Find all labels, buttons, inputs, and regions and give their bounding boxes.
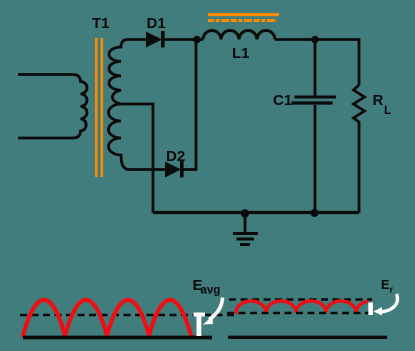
transformer core line left — [95, 38, 98, 177]
left waveform red humps — [23, 300, 191, 336]
ground stem — [244, 213, 247, 233]
svg-text:T1: T1 — [92, 15, 110, 32]
ground junction dot — [241, 209, 249, 217]
transformer T1 primary winding — [18, 75, 87, 139]
svg-text:avg: avg — [201, 285, 221, 297]
node junction dot C1 bottom — [311, 209, 319, 217]
node junction dot C1 top — [311, 36, 319, 44]
inductor L1 — [203, 31, 275, 40]
resistor RL zigzag — [354, 85, 365, 213]
right waveform baseline — [228, 336, 387, 339]
wire L1 to right corner — [275, 40, 359, 86]
right waveform red ripple — [236, 301, 367, 313]
wire center tap — [121, 104, 153, 213]
wire D2 to node riser — [183, 40, 196, 170]
svg-text:r: r — [390, 285, 394, 296]
Eavg white level tick — [194, 313, 206, 317]
Eavg white arrow — [209, 298, 223, 320]
bottom rail wire — [153, 211, 359, 214]
svg-text:C1: C1 — [273, 92, 292, 109]
transformer T1 secondary winding lower half — [108, 104, 129, 170]
capacitor C1 plates — [295, 96, 337, 99]
L1 core line top — [208, 13, 279, 16]
svg-text:L: L — [384, 103, 391, 117]
wire secondary bottom to D2 — [129, 168, 166, 171]
svg-text:D2: D2 — [166, 148, 185, 165]
Er white measure bar — [368, 303, 373, 316]
left waveform dashed average line — [20, 314, 235, 317]
diode D1 — [146, 32, 162, 48]
ground bars — [233, 232, 258, 235]
left waveform baseline — [23, 336, 212, 340]
transformer T1 secondary winding upper half — [109, 40, 128, 105]
svg-text:E: E — [381, 278, 389, 292]
L1 core line bottom — [208, 19, 277, 22]
svg-text:R: R — [373, 92, 384, 109]
node junction dot D1/D2 — [193, 36, 201, 44]
Er white arrow — [378, 294, 398, 312]
wire secondary top to D1 — [128, 38, 147, 41]
Eavg white measure bar — [197, 315, 202, 337]
svg-text:D1: D1 — [147, 15, 166, 32]
transformer core line right — [101, 38, 104, 177]
capacitor C1 lead bottom — [314, 105, 317, 213]
diode D2 — [165, 162, 181, 178]
capacitor C1 lead top — [314, 40, 317, 96]
wire D1 to node — [164, 38, 203, 41]
right waveform bottom dashed line — [227, 312, 372, 314]
svg-text:L1: L1 — [232, 45, 250, 62]
right waveform top dashed line — [229, 298, 372, 300]
